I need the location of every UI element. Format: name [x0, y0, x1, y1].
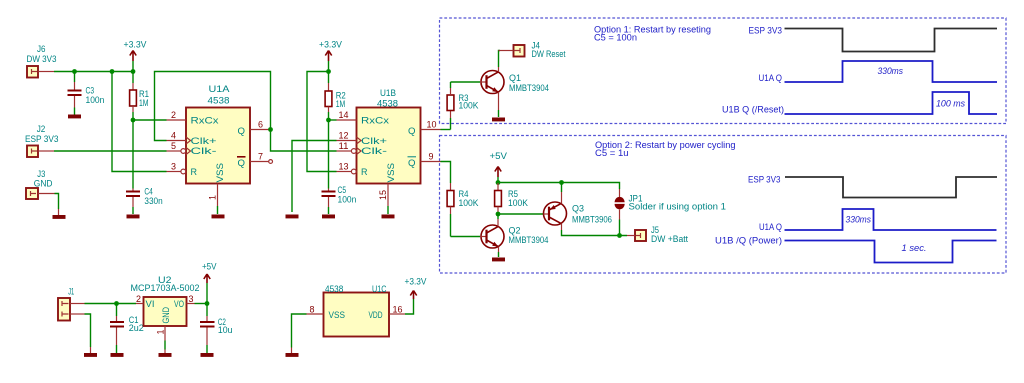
svg-text:1 sec.: 1 sec.	[902, 243, 927, 253]
svg-text:ESP 3V3: ESP 3V3	[748, 174, 781, 184]
wire R2 junction down to C5	[328, 120, 330, 189]
svg-text:3: 3	[189, 294, 194, 304]
svg-text:1M: 1M	[336, 99, 346, 109]
junction C2 top	[205, 301, 210, 306]
svg-text:330n: 330n	[144, 196, 162, 206]
svg-text:Solder if using option 1: Solder if using option 1	[629, 202, 727, 212]
wire Q to U1B Clk-	[271, 130, 337, 152]
svg-text:Q: Q	[408, 126, 416, 136]
ground U1B	[382, 215, 395, 219]
resistor R1	[130, 72, 149, 121]
power +3.3V (U1C)	[405, 277, 427, 300]
waveform U1B /Q trace (option 2)	[785, 241, 997, 263]
connector J3	[26, 169, 55, 199]
wire J6 rail	[54, 71, 133, 73]
U1B pin 12 with clock mark	[337, 131, 362, 145]
svg-text:12: 12	[339, 131, 349, 141]
power +5V (option 2)	[490, 151, 508, 183]
resistor R5	[495, 183, 528, 214]
ground U2	[159, 353, 172, 357]
svg-text:7: 7	[258, 152, 263, 162]
svg-text:Q: Q	[238, 126, 246, 136]
svg-text:8: 8	[310, 305, 315, 315]
wire DW3V3 to R pin	[112, 72, 167, 172]
wire Q3 emitter to J5 rail	[562, 230, 628, 236]
ground Q2	[492, 258, 505, 262]
svg-text:2: 2	[171, 110, 176, 120]
svg-text:15: 15	[378, 190, 388, 200]
ground U1C	[286, 353, 299, 357]
svg-text:11: 11	[339, 141, 349, 151]
junction R2 bottom	[326, 118, 331, 123]
connector J5	[627, 225, 688, 244]
waveform ESP 3V3 trace (option 2)	[785, 177, 997, 198]
wire feedback Q to Clk+	[155, 72, 271, 141]
U1A pin 4 with clock mark	[167, 131, 191, 145]
svg-text:J6: J6	[37, 44, 46, 54]
waveform ESP 3V3 trace (option 1)	[785, 29, 998, 52]
waveform U1A Q trace (option 2)	[785, 209, 997, 230]
jumper JP1	[615, 189, 727, 236]
connector J6	[27, 44, 57, 78]
svg-text:Clk+: Clk+	[361, 136, 387, 146]
svg-text:VO: VO	[174, 299, 184, 309]
svg-text:MMBT3906: MMBT3906	[572, 215, 612, 225]
svg-text:100K: 100K	[459, 198, 479, 208]
svg-text:ESP 3V3: ESP 3V3	[25, 134, 59, 144]
U2 pin 2 VI	[136, 294, 144, 304]
svg-text:MMBT3904: MMBT3904	[509, 235, 549, 245]
wire J1 pin1 to U2 VI	[85, 303, 137, 305]
svg-text:R: R	[361, 167, 368, 177]
svg-text:GND: GND	[161, 307, 171, 324]
svg-text:C5 = 100n: C5 = 100n	[594, 33, 637, 43]
connector J1	[58, 287, 85, 321]
U1B pin 10 Q	[421, 120, 441, 130]
wire R1 to RxCx pin2	[133, 119, 167, 121]
U1B pin 14	[337, 110, 357, 120]
op-amp U1A body	[186, 84, 250, 184]
svg-text:Q2: Q2	[509, 226, 521, 236]
svg-text:VSS: VSS	[215, 163, 225, 183]
svg-text:5: 5	[171, 141, 176, 151]
svg-text:100K: 100K	[508, 198, 528, 208]
U1A pin 5 inverted clock	[167, 141, 191, 155]
regulator U2	[131, 275, 200, 326]
svg-text:U1B /Q (Power): U1B /Q (Power)	[715, 236, 782, 246]
svg-text:100n: 100n	[86, 95, 105, 105]
U2 pin 1 GND	[156, 326, 166, 353]
power +3.3V (middle)	[319, 40, 342, 72]
svg-text:DW +Batt: DW +Batt	[651, 234, 688, 244]
svg-text:Q: Q	[238, 158, 246, 168]
svg-text:Clk+: Clk+	[191, 136, 217, 146]
svg-text:+5V: +5V	[202, 262, 217, 272]
transistor Q3	[544, 183, 613, 231]
power +5V (regulator)	[202, 262, 217, 304]
resistor R4	[447, 183, 478, 237]
junction R1 bottom	[131, 118, 136, 123]
svg-text:4538: 4538	[208, 96, 230, 106]
junction R2 top	[326, 69, 331, 74]
svg-text:Q3: Q3	[572, 204, 584, 214]
wire R5 junction to Q2 collector	[497, 214, 499, 219]
svg-text:3: 3	[171, 162, 176, 172]
op-amp U1C power unit	[324, 284, 390, 337]
svg-text:VSS: VSS	[329, 310, 346, 320]
svg-text:Clk-: Clk-	[361, 146, 387, 156]
capacitor C1	[110, 304, 144, 354]
ground J1	[84, 353, 97, 357]
ground U1A	[212, 215, 225, 219]
svg-text:4538: 4538	[325, 284, 343, 294]
U1C pin 8 VSS	[307, 305, 324, 315]
svg-text:U1B: U1B	[380, 88, 396, 98]
U1A pin 6 Q	[250, 120, 271, 130]
option 2 dashed box	[440, 136, 1007, 274]
junction wire-R	[110, 69, 115, 74]
svg-text:U1B Q (/Reset): U1B Q (/Reset)	[722, 105, 784, 115]
ground C2	[201, 353, 214, 357]
capacitor C2	[200, 304, 233, 354]
ground C1	[111, 353, 124, 357]
wire J2 to Clk- pin5	[54, 150, 167, 152]
svg-text:VDD: VDD	[369, 310, 383, 320]
connector J4	[499, 41, 566, 60]
capacitor C4	[126, 186, 163, 214]
svg-text:J1: J1	[68, 287, 74, 297]
wire R4 to Q2 base	[451, 236, 481, 238]
svg-text:100 ms: 100 ms	[936, 99, 965, 109]
svg-text:U1C: U1C	[372, 284, 387, 294]
waveform U1A Q trace (option 1)	[785, 61, 998, 82]
svg-text:100n: 100n	[338, 195, 357, 205]
U1B pin 9 Qbar	[421, 152, 441, 162]
option 1 dashed box	[440, 18, 1007, 124]
svg-text:C5: C5	[338, 185, 347, 195]
svg-text:1: 1	[208, 195, 218, 200]
junction R1 top	[131, 69, 136, 74]
svg-text:VSS: VSS	[386, 163, 396, 183]
svg-text:2: 2	[136, 294, 141, 304]
ground Clk+ pulldown	[286, 215, 299, 219]
U1C pin 16 VDD	[389, 305, 405, 315]
svg-text:C5 = 1u: C5 = 1u	[595, 148, 629, 158]
svg-text:+3.3V: +3.3V	[319, 40, 342, 50]
svg-text:2u2: 2u2	[129, 323, 144, 333]
svg-text:10u: 10u	[218, 325, 233, 335]
connector J2	[25, 124, 59, 157]
power +3.3V (left)	[124, 40, 147, 72]
svg-text:C4: C4	[144, 186, 152, 196]
svg-text:13: 13	[339, 162, 349, 172]
svg-text:U1A Q: U1A Q	[759, 222, 782, 232]
ground C4	[127, 215, 140, 219]
svg-text:330ms: 330ms	[846, 215, 872, 225]
svg-text:16: 16	[393, 305, 403, 315]
svg-text:+3.3V: +3.3V	[405, 277, 427, 287]
svg-text:+3.3V: +3.3V	[124, 40, 147, 50]
wire R5 to Q3 base	[498, 213, 544, 215]
svg-text:Clk-: Clk-	[191, 146, 217, 156]
svg-text:C3: C3	[86, 86, 95, 96]
resistor R2	[325, 72, 346, 121]
wire J1 pin2 to ground	[85, 314, 91, 347]
ground Q1	[492, 118, 505, 122]
svg-text:GND: GND	[34, 178, 53, 188]
svg-text:1: 1	[156, 330, 166, 335]
junction R5 top	[496, 180, 501, 185]
svg-text:9: 9	[429, 152, 434, 162]
ground C3	[68, 115, 81, 119]
svg-text:1M: 1M	[139, 98, 149, 108]
wire 3.3V rail to U1B R pin	[307, 72, 337, 172]
svg-text:DW Reset: DW Reset	[532, 49, 566, 59]
wire U2 VO to C2	[195, 303, 208, 305]
wire U1C VSS to ground	[292, 314, 307, 348]
svg-text:R: R	[191, 167, 198, 177]
svg-text:J2: J2	[37, 124, 46, 134]
svg-text:10: 10	[427, 120, 437, 130]
junction U1A Q output	[268, 127, 273, 132]
ground J3	[53, 215, 66, 219]
svg-text:ESP 3V3: ESP 3V3	[749, 26, 783, 36]
svg-text:Q: Q	[408, 158, 416, 168]
wire U1B Clk+ to ground	[292, 141, 337, 213]
op-amp U1B body	[357, 88, 421, 184]
U1A pin 2	[167, 110, 187, 120]
capacitor C5	[322, 185, 357, 214]
svg-text:100K: 100K	[459, 101, 479, 111]
svg-text:MMBT3904: MMBT3904	[509, 83, 549, 93]
junction C3 top	[72, 69, 77, 74]
resistor R3	[447, 82, 478, 130]
U1A pin 7 Qbar unconnected	[250, 152, 273, 164]
svg-text:MCP1703A-5002: MCP1703A-5002	[131, 283, 200, 293]
U2 pin 3 VO	[187, 294, 195, 304]
U1A pin 1 VSS	[208, 184, 218, 215]
U1B pin 13 inverted	[337, 162, 357, 174]
svg-text:+5V: +5V	[490, 151, 508, 161]
ground C5	[322, 215, 335, 219]
U1A pin 3 inverted	[167, 162, 186, 174]
waveform U1B Q trace (option 1)	[785, 92, 998, 114]
svg-text:VI: VI	[146, 299, 155, 309]
svg-text:U1A: U1A	[209, 84, 230, 94]
U1B pin 11 inverted clock	[337, 141, 362, 155]
wire U1B Q pin10 to R3	[441, 129, 451, 131]
wire R3 to Q1 base	[451, 81, 481, 83]
svg-text:RxCx: RxCx	[361, 115, 390, 125]
junction JP1 bottom	[617, 233, 622, 238]
wire R2 to U1B RxCx	[329, 119, 337, 121]
svg-text:14: 14	[339, 110, 349, 120]
svg-text:DW 3V3: DW 3V3	[27, 54, 57, 64]
junction Q3 collector rail	[559, 180, 564, 185]
junction C1 top	[114, 301, 119, 306]
svg-text:Q1: Q1	[509, 73, 521, 83]
wire U1B pin9 to R4	[441, 162, 451, 184]
junction R5 bottom	[496, 212, 501, 217]
transistor Q2	[480, 219, 549, 257]
wire +5V rail to JP1	[498, 183, 620, 190]
svg-text:330ms: 330ms	[878, 66, 904, 76]
wire R1 junction down to C4	[132, 120, 134, 189]
wire U1C VDD to 3.3V	[405, 299, 414, 314]
U1B pin 15 VSS	[378, 184, 388, 215]
svg-text:U1A Q: U1A Q	[759, 73, 783, 83]
svg-text:RxCx: RxCx	[191, 115, 220, 125]
svg-text:4: 4	[171, 131, 176, 141]
capacitor C3	[68, 72, 105, 115]
wire Q1 collector to J4	[499, 51, 501, 68]
wire J3 to ground	[55, 194, 59, 210]
transistor Q1	[480, 67, 549, 117]
svg-text:6: 6	[258, 120, 263, 130]
svg-text:4538: 4538	[377, 99, 398, 109]
